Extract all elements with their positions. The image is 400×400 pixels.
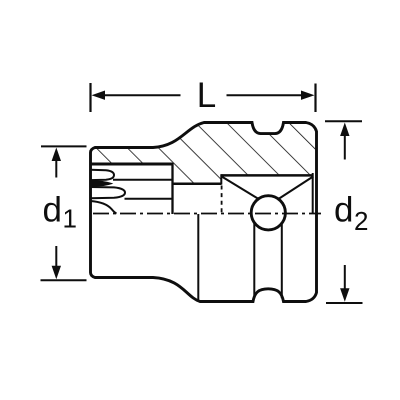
svg-text:d: d — [334, 191, 353, 230]
svg-text:L: L — [197, 76, 216, 115]
svg-text:1: 1 — [63, 204, 77, 234]
svg-text:2: 2 — [354, 206, 368, 236]
svg-text:d: d — [43, 191, 62, 230]
